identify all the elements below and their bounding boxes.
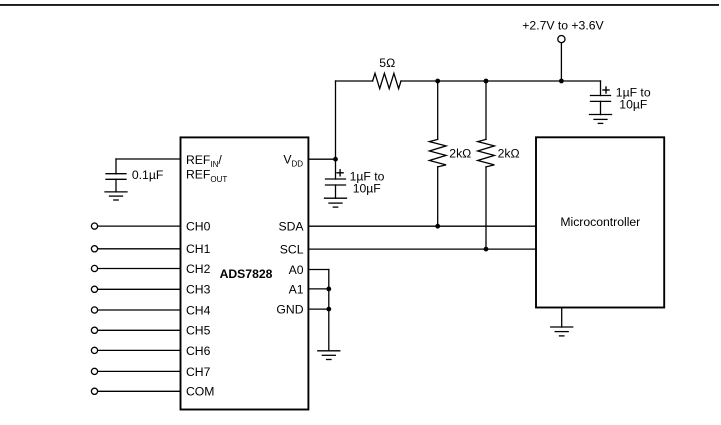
svg-text:A0: A0 (289, 263, 304, 277)
svg-text:10µF: 10µF (353, 181, 381, 195)
svg-text:REFIN/: REFIN/ (186, 153, 222, 169)
svg-text:+2.7V to +3.6V: +2.7V to +3.6V (522, 18, 604, 32)
svg-text:CH1: CH1 (186, 242, 211, 256)
svg-text:0.1µF: 0.1µF (132, 168, 163, 182)
svg-text:REFOUT: REFOUT (186, 168, 227, 185)
svg-text:CH6: CH6 (186, 344, 211, 358)
svg-text:COM: COM (186, 385, 214, 399)
svg-text:CH7: CH7 (186, 365, 211, 379)
svg-text:ADS7828: ADS7828 (220, 267, 273, 281)
svg-text:CH3: CH3 (186, 283, 211, 297)
svg-text:VDD: VDD (283, 153, 303, 169)
svg-text:CH2: CH2 (186, 262, 211, 276)
svg-text:CH4: CH4 (186, 303, 211, 317)
svg-text:10µF: 10µF (619, 97, 647, 111)
svg-text:5Ω: 5Ω (379, 56, 395, 70)
svg-text:SCL: SCL (280, 243, 304, 257)
svg-text:2kΩ: 2kΩ (498, 146, 520, 160)
svg-text:A1: A1 (289, 282, 304, 296)
svg-text:CH0: CH0 (186, 220, 211, 234)
svg-text:Microcontroller: Microcontroller (560, 215, 640, 229)
svg-text:GND: GND (276, 303, 303, 317)
svg-text:SDA: SDA (278, 220, 304, 234)
svg-text:2kΩ: 2kΩ (449, 146, 471, 160)
svg-text:CH5: CH5 (186, 324, 211, 338)
